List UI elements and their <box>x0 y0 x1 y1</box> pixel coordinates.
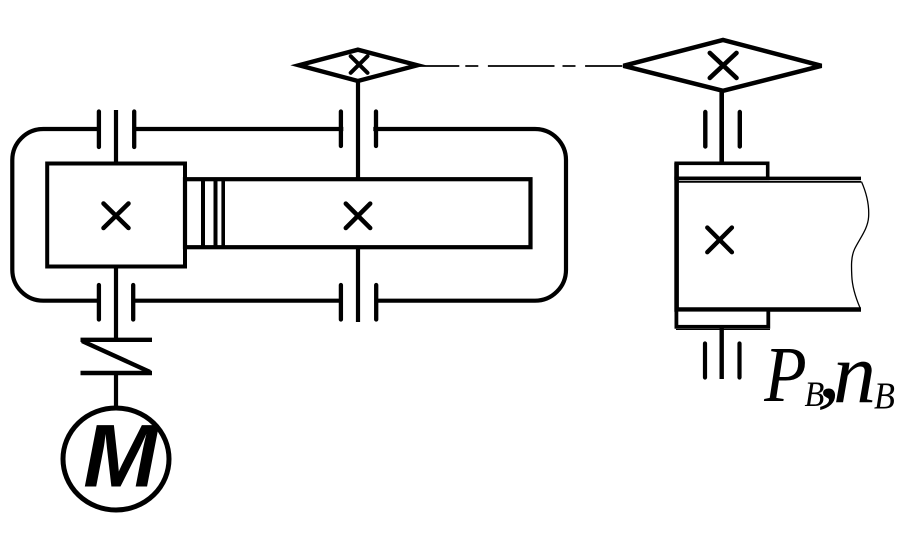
label P_B , n_B <box>763 322 895 421</box>
bearing: intermediate shaft, housing top <box>341 112 376 147</box>
gearbox housing <box>12 129 566 301</box>
spline tooth hatching line 1 <box>201 179 205 247</box>
drum bearing block (top) <box>676 163 768 178</box>
housing top line gap at intermediate-shaft bearing <box>343 125 373 134</box>
shaft cross X (input shaft) <box>104 204 129 229</box>
bearing: output shaft lower <box>705 344 740 378</box>
drum body (left edge and bottom edge) <box>677 163 861 310</box>
shaft cross X (intermediate shaft) <box>346 204 370 228</box>
bearing: input shaft, housing top <box>99 112 134 148</box>
svg-text:B: B <box>874 375 895 417</box>
gear body on intermediate shaft <box>185 179 531 247</box>
coupling diagonal <box>82 341 150 372</box>
svg-text:n: n <box>833 325 876 421</box>
small belt pulley (diamond) <box>299 50 418 81</box>
output shaft upper segment <box>719 90 724 164</box>
motor circle <box>63 408 169 510</box>
housing bottom line gap at intermediate-shaft bearing <box>342 297 374 306</box>
shaft cross X on large pulley <box>710 53 737 78</box>
bearing: output shaft upper <box>705 112 740 147</box>
shaft cross X on small pulley <box>351 56 368 73</box>
input shaft upper segment <box>114 110 118 165</box>
shaft cross X (drum shaft) <box>707 228 732 253</box>
housing bottom line gap at input-shaft bearing <box>101 297 132 306</box>
coupling top bar <box>81 338 153 342</box>
coupling bottom bar <box>81 371 153 375</box>
intermediate shaft lower stub <box>356 246 360 323</box>
spline tooth hatching line 3 <box>221 179 225 247</box>
belt drive axis (dash-dot line) <box>417 65 622 67</box>
housing top line gap at input-shaft bearing <box>101 125 133 134</box>
bearing: input shaft, housing bottom <box>99 285 133 320</box>
spline tooth hatching line 2 <box>214 179 218 247</box>
output shaft lower stub <box>720 327 724 379</box>
drum bottom thin line <box>676 328 770 330</box>
drum top edge second line <box>676 181 861 183</box>
intermediate shaft upper segment <box>356 80 360 181</box>
drum top edge thick line <box>674 177 861 180</box>
break line (wavy right edge of drum) <box>852 182 869 308</box>
drum bearing block (bottom) <box>676 310 768 327</box>
bearing: intermediate shaft, housing bottom <box>341 285 376 320</box>
svg-text:P: P <box>763 332 806 419</box>
svg-text:M: M <box>83 406 159 506</box>
large belt pulley (diamond) <box>623 40 821 91</box>
input shaft lower segment (to coupling) <box>114 265 118 341</box>
gear wheel on input shaft <box>47 164 185 267</box>
shaft from coupling to motor <box>114 373 118 408</box>
